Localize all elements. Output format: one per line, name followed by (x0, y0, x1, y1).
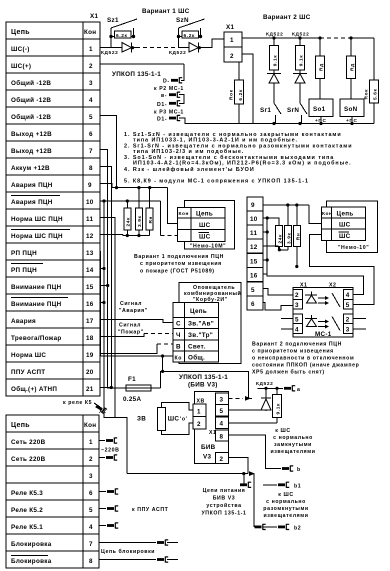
wire pin1 to loop (100, 47, 111, 49)
diode VD3 (261, 388, 271, 411)
svg-text:Rд: Rд (319, 63, 325, 71)
svg-text:Авария: Авария (11, 318, 36, 325)
svg-text:5: 5 (251, 287, 255, 294)
svg-text:ШС: ШС (339, 222, 351, 229)
svg-text:КД522: КД522 (292, 32, 309, 38)
svg-text:ШС(+): ШС(+) (11, 63, 31, 70)
module MC-1 (293, 283, 353, 339)
svg-text:21: 21 (86, 386, 94, 393)
wire pin12 bottom PCN line (100, 234, 150, 237)
branch So1: resistor Rd and detector box (309, 38, 333, 124)
svg-text:Норма ШС ПЦН: Норма ШС ПЦН (11, 233, 63, 240)
svg-text:5. К8,К9 - модули МС-1 сопряже: 5. К8,К9 - модули МС-1 сопряжения с УПКО… (124, 179, 309, 185)
svg-text:Х1: Х1 (226, 24, 234, 31)
svg-text:Зв."Ав": Зв."Ав" (188, 321, 214, 328)
svg-text:Тревога/Пожар: Тревога/Пожар (11, 335, 62, 342)
svg-text:Rн: Rн (295, 233, 301, 241)
svg-text:2: 2 (89, 456, 93, 463)
UPKOP BIV V3 unit (179, 374, 228, 464)
svg-text:к ШС: к ШС (278, 492, 293, 498)
svg-text:ШС: ШС (199, 222, 211, 229)
svg-text:Вариант 2 ШС: Вариант 2 ШС (263, 14, 311, 21)
svg-text:Цепь: Цепь (11, 29, 30, 36)
svg-text:4: 4 (89, 524, 93, 531)
svg-text:Выход +12В: Выход +12В (11, 148, 52, 155)
svg-text:с нормально: с нормально (266, 499, 306, 505)
svg-text:V3: V3 (203, 454, 211, 461)
diode circuit top wire with plug a (257, 385, 300, 393)
svg-text:Ч: Ч (176, 332, 181, 339)
plug b1 branch (240, 474, 301, 490)
svg-text:16: 16 (86, 301, 94, 308)
svg-text:КД522: КД522 (256, 381, 273, 387)
svg-text:Вариант 1 подключения ПЦН: Вариант 1 подключения ПЦН (134, 254, 224, 260)
svg-text:Сеть 220В: Сеть 220В (11, 439, 46, 446)
svg-text:SzN: SzN (176, 17, 189, 24)
svg-text:11: 11 (86, 216, 93, 223)
vertical bus vD pin8 (100, 167, 113, 390)
svg-text:КД522: КД522 (101, 50, 118, 56)
svg-text:8: 8 (89, 558, 93, 565)
vertical bus vC pin7 to fuse with pin15 tap (100, 150, 126, 389)
plug b2 branch (254, 474, 301, 532)
wire BIV pin4 to resistor bottom (228, 422, 277, 424)
svg-text:Сеть 220В: Сеть 220В (11, 456, 46, 463)
svg-text:Кон: Кон (84, 422, 96, 429)
svg-text:с приоритетом извещения: с приоритетом извещения (140, 261, 222, 267)
svg-text:Кон: Кон (322, 211, 333, 217)
svg-text:9.1к: 9.1к (299, 55, 305, 66)
svg-text:1: 1 (230, 37, 234, 44)
svg-text:РП ПЦН: РП ПЦН (11, 250, 37, 257)
svg-text:0.25А: 0.25А (123, 396, 141, 403)
X2 pin6 relay plug (99, 489, 118, 495)
svg-text:5: 5 (89, 507, 93, 514)
svg-text:D1-: D1- (157, 117, 167, 123)
svg-text:ШС(-): ШС(-) (11, 46, 30, 53)
svg-text:с приоритетом извещения: с приоритетом извещения (252, 349, 334, 355)
vertical bus vA pin13 to Ko (100, 252, 173, 358)
svg-text:к Р2 МС-1: к Р2 МС-1 (154, 86, 184, 92)
svg-text:13: 13 (86, 250, 94, 257)
svg-text:b2: b2 (294, 526, 301, 532)
wire pin14 stub (100, 267, 106, 270)
fuse F1 0.25A (123, 376, 160, 403)
svg-text:(БИВ V3): (БИВ V3) (188, 382, 218, 389)
wire cell12 to resistor bottoms (263, 246, 288, 251)
svg-text:2: 2 (220, 456, 224, 463)
notes list (124, 132, 353, 185)
wire pin17 to Korbu C (100, 320, 173, 323)
svg-text:замкнутыми: замкнутыми (274, 442, 312, 448)
svg-text:извещателями: извещателями (263, 513, 308, 519)
svg-text:к ППУ АСПТ: к ППУ АСПТ (132, 507, 169, 513)
svg-text:Реле К5.1: Реле К5.1 (11, 524, 43, 531)
svg-text:Внимание ПЦН: Внимание ПЦН (11, 301, 62, 308)
wire cell16 vertical bus to MC-1 X2 pin4 (263, 218, 364, 295)
svg-text:4: 4 (89, 97, 93, 104)
svg-text:"Корбу-2И": "Корбу-2И" (193, 296, 228, 303)
svg-text:4: 4 (220, 421, 224, 428)
vertical bus vB pin10 return (104, 201, 127, 474)
X2 pin8 blocking wire (99, 557, 178, 563)
svg-text:3.9к: 3.9к (286, 233, 292, 244)
resistor R2 PCN (135, 188, 143, 236)
wire dashed to ShS-bar row of Nemo-10M (160, 235, 177, 237)
diode VD1 KD522 (101, 43, 136, 57)
svg-text:6: 6 (89, 131, 93, 138)
svg-text:Выход +12В: Выход +12В (11, 131, 52, 138)
bottom power bus with arrow (127, 471, 255, 476)
svg-text:12: 12 (250, 244, 258, 251)
right terminal strip 5-6 (247, 282, 263, 310)
svg-text:"Авария": "Авария" (119, 308, 148, 314)
resistor R7 9.1k (273, 388, 282, 423)
svg-text:Реле К5.2: Реле К5.2 (11, 507, 43, 514)
svg-text:Блокировка: Блокировка (11, 558, 52, 565)
svg-text:Цепи питания: Цепи питания (203, 488, 246, 494)
svg-text:F1: F1 (128, 376, 136, 383)
wire BIV pin5 to diode (228, 409, 266, 411)
svg-text:5: 5 (346, 302, 350, 309)
svg-text:устройства: устройства (206, 502, 241, 509)
wire pin19 to Korbu V (100, 344, 173, 353)
svg-text:10: 10 (86, 199, 94, 206)
svg-text:С: С (176, 321, 181, 328)
svg-text:6.2к: 6.2к (116, 33, 127, 39)
wire pin9 jog to top PCN line (100, 184, 167, 188)
svg-text:12: 12 (86, 233, 94, 240)
svg-text:к Р3 МС-1: к Р3 МС-1 (154, 110, 184, 116)
resistor R3 PCN (146, 188, 154, 236)
svg-text:b: b (297, 467, 301, 473)
detector Sz1 (107, 17, 137, 48)
right terminal strip 15-16 (247, 254, 263, 282)
svg-text:о неисправности в отключенном: о неисправности в отключенном (252, 356, 354, 362)
svg-text:Общ.(+) АТНП: Общ.(+) АТНП (11, 385, 57, 393)
svg-text:Rн: Rн (148, 216, 154, 224)
svg-text:в-: в- (161, 93, 167, 99)
right terminal strip 9-12 (247, 197, 263, 253)
optocoupler 1 inside MC-1 (305, 292, 340, 308)
svg-text:Сигнал: Сигнал (119, 323, 141, 329)
svg-text:к ШС: к ШС (275, 428, 290, 434)
wire pin5 down to PCN resistor bus (100, 116, 117, 188)
svg-text:8: 8 (89, 165, 93, 172)
svg-text:11: 11 (250, 230, 257, 237)
wire cell15 to vertical (263, 258, 269, 261)
svg-text:1: 1 (89, 46, 93, 53)
svg-text:Реле К5.3: Реле К5.3 (11, 490, 43, 497)
svg-text:Свет.: Свет. (188, 344, 206, 351)
svg-text:Норма ШС ПЦН: Норма ШС ПЦН (11, 216, 63, 223)
svg-text:3: 3 (295, 302, 299, 309)
svg-text:6: 6 (89, 490, 93, 497)
wire BIV pin2 to bottom bus (228, 458, 248, 474)
svg-text:3: 3 (220, 397, 224, 404)
svg-text:Sг1: Sг1 (260, 107, 271, 114)
svg-text:Вариант 2 подключения ПЦН: Вариант 2 подключения ПЦН (252, 342, 342, 348)
svg-text:Общий -12В: Общий -12В (11, 79, 51, 87)
svg-text:6.2к: 6.2к (184, 33, 195, 39)
UPKOP label block with D outputs (100, 64, 253, 124)
connector X1 plug 2pin (224, 24, 242, 62)
svg-text:1: 1 (197, 409, 201, 416)
vertical bus vE pin11 (100, 218, 115, 418)
PCN device Nemo-10M box (178, 200, 235, 249)
wire loop to connector X1 (206, 39, 224, 48)
svg-text:Rок: Rок (364, 89, 370, 100)
svg-text:15: 15 (250, 259, 258, 266)
wire to ShS row of Nemo-10M (167, 188, 177, 224)
connector X1 terminal table (6, 13, 100, 396)
wire cell11 to vertical (263, 230, 269, 233)
top bus variant 2 (272, 36, 374, 39)
svg-text:5: 5 (295, 317, 299, 324)
svg-text:~220В: ~220В (101, 448, 119, 454)
X2 pin7 blocking wire (99, 540, 178, 546)
svg-text:УПКОП 135-1-1: УПКОП 135-1-1 (201, 511, 246, 517)
svg-text:2: 2 (197, 421, 201, 428)
connector X2 terminal table (6, 415, 99, 568)
resistor ShS-o with leads (158, 403, 194, 435)
svg-text:Ко: Ко (175, 356, 183, 362)
svg-text:ППУ АСПТ: ППУ АСПТ (11, 369, 45, 376)
annunciator Korbu box (173, 283, 242, 364)
wire BIV pin8 to plug b (228, 435, 300, 473)
optocoupler 2 inside MC-1 (305, 315, 340, 331)
svg-text:Sz1: Sz1 (107, 17, 119, 24)
svg-text:В: В (176, 344, 181, 351)
svg-text:3: 3 (89, 80, 93, 87)
wire dashed loop segment (136, 47, 179, 49)
resistor Rok variant1 (229, 62, 245, 124)
svg-text:4: 4 (295, 327, 299, 334)
svg-text:14: 14 (86, 267, 94, 274)
stub MC-1 X2 pin3 (353, 328, 366, 330)
svg-text:17: 17 (86, 318, 94, 325)
svg-text:комбинированный: комбинированный (184, 290, 241, 297)
svg-text:с нормально: с нормально (273, 435, 313, 441)
svg-text:24к: 24к (277, 234, 283, 244)
svg-text:1: 1 (89, 439, 93, 446)
svg-text:7: 7 (89, 541, 93, 548)
svg-text:2: 2 (346, 317, 350, 324)
power wire from Ko and fuse to diode circuit (160, 356, 248, 398)
svg-text:D1-: D1- (157, 102, 167, 108)
svg-text:Внимание ПЦН: Внимание ПЦН (11, 284, 62, 291)
svg-text:Кон: Кон (84, 29, 96, 36)
svg-text:Цепь: Цепь (337, 211, 354, 218)
svg-text:Авария ПЦН: Авария ПЦН (11, 182, 53, 189)
stub MC-1 X1 pin4 (281, 328, 293, 330)
svg-text:ШС: ШС (199, 234, 211, 241)
svg-text:Кон: Кон (179, 211, 190, 217)
svg-text:УПКОП 135-1-1: УПКОП 135-1-1 (112, 71, 161, 78)
svg-text:БИВ: БИВ (201, 444, 216, 451)
svg-text:"Немо-10": "Немо-10" (338, 245, 369, 251)
bottom bus variant 2 (253, 122, 374, 125)
svg-text:Rок: Rок (229, 89, 235, 100)
svg-text:типа ИП1033-1, ИП103-3-А2-1И и: типа ИП1033-1, ИП103-3-А2-1И и им подобн… (133, 137, 298, 144)
svg-text:15: 15 (86, 284, 94, 291)
resistor R1 PCN (124, 201, 132, 236)
branch Sg1: resistor 9.1k, diode, switch (260, 38, 281, 124)
X2 pin1 plug 220V (99, 438, 117, 444)
wire strip cell6 to MC-1 X1 pin3 (263, 303, 293, 311)
svg-text:Цепь: Цепь (196, 211, 213, 218)
detector SzN (176, 17, 205, 48)
svg-text:8: 8 (220, 433, 224, 440)
svg-text:Rд: Rд (350, 63, 356, 71)
svg-text:9.1к: 9.1к (276, 403, 282, 414)
svg-text:10: 10 (250, 216, 258, 223)
svg-text:2: 2 (89, 63, 93, 70)
text to ShS normally closed (270, 428, 315, 455)
X2 pin5 relay plug (99, 506, 118, 512)
wire pin16 stub (100, 301, 106, 304)
svg-text:24к: 24к (126, 217, 132, 227)
svg-text:'о': 'о' (180, 417, 187, 423)
svg-text:"Немо-10М": "Немо-10М" (190, 244, 226, 250)
svg-text:b1: b1 (294, 484, 301, 490)
svg-text:МС-1: МС-1 (315, 331, 332, 338)
svg-text:19: 19 (86, 352, 94, 359)
svg-text:3: 3 (346, 327, 350, 334)
svg-text:20: 20 (86, 369, 94, 376)
svg-text:ЗВ: ЗВ (137, 416, 146, 423)
signal label Pozhar (118, 323, 144, 336)
wire ShS-bar row to MC-1 X2 pin5 (310, 235, 374, 305)
text variant 1 PCN note (134, 254, 224, 275)
svg-text:6: 6 (251, 301, 255, 308)
svg-text:КД522: КД522 (169, 50, 186, 56)
svg-text:о пожаре (ГОСТ Р51089): о пожаре (ГОСТ Р51089) (140, 269, 215, 275)
svg-text:РП ПЦН: РП ПЦН (11, 267, 37, 274)
branch SoN: resistor Rd and detector box (340, 38, 364, 124)
svg-text:УПКОП 135-1-1: УПКОП 135-1-1 (179, 374, 228, 381)
svg-text:ИП103-4-А2-1(Rо=4.3кОм), ИП212: ИП103-4-А2-1(Rо=4.3кОм), ИП212-Р6(Rо=3.3… (133, 160, 352, 167)
text to ShS normally open (263, 492, 308, 519)
svg-text:БИВ V3: БИВ V3 (213, 496, 236, 502)
svg-text:Сигнал: Сигнал (120, 301, 142, 307)
svg-text:состоянии ППКОП (иначе джампер: состоянии ППКОП (иначе джампер (252, 363, 359, 369)
wire X1 pin2 down to bottom bus (242, 54, 253, 124)
svg-text:SoN: SoN (344, 106, 358, 113)
svg-text:9: 9 (251, 202, 255, 209)
svg-text:2: 2 (230, 53, 234, 60)
text power circuits BIV (201, 488, 246, 517)
svg-text:Общий -12В: Общий -12В (11, 96, 51, 104)
svg-text:SгN: SгN (287, 107, 299, 114)
svg-text:Х2: Х2 (99, 409, 107, 415)
diode VD2 KD522 (169, 43, 206, 57)
resistor R5 PCN2 (285, 205, 293, 250)
branch SgN: resistor 9.1k, diode, switch (287, 38, 307, 124)
svg-text:Блокировка: Блокировка (11, 541, 52, 548)
svg-text:9: 9 (88, 182, 92, 189)
svg-text:So1: So1 (313, 106, 326, 113)
svg-text:Цепь блокировки: Цепь блокировки (101, 548, 155, 555)
svg-text:5: 5 (89, 114, 93, 121)
svg-text:2: 2 (295, 292, 299, 299)
svg-text:типа ИП103-2/3 и им подобные.: типа ИП103-2/3 и им подобные. (133, 148, 244, 155)
svg-text:9.1к: 9.1к (273, 55, 279, 66)
svg-text:6.2к: 6.2к (238, 89, 244, 100)
svg-text:Общ.: Общ. (188, 354, 205, 362)
text variant 2 PCN note (252, 342, 359, 376)
svg-text:Авария ПЦН: Авария ПЦН (11, 199, 53, 206)
svg-text:Цепь: Цепь (190, 308, 207, 315)
svg-text:разомкнутыми: разомкнутыми (263, 506, 308, 512)
svg-text:КД522: КД522 (266, 32, 283, 38)
label k rele K5 and X2 (63, 400, 107, 415)
svg-text:"Пожар": "Пожар" (118, 330, 144, 336)
svg-text:D-: D- (163, 79, 170, 85)
svg-text:7: 7 (89, 148, 93, 155)
stub MC-1 X2 pin2 (353, 318, 366, 320)
resistor Rok variant2 5.6k (364, 38, 379, 124)
svg-text:4. Rзк - шлейфовый элемент'ы Б: 4. Rзк - шлейфовый элемент'ы БУОИ (124, 166, 255, 173)
resistor R6 PCN2 (294, 205, 302, 267)
resistor R4 PCN2 (276, 226, 284, 250)
svg-text:3: 3 (89, 473, 93, 480)
svg-text:Х1: Х1 (90, 13, 98, 20)
svg-text:Зв."Тр": Зв."Тр" (188, 332, 213, 339)
svg-text:5: 5 (220, 408, 224, 415)
wire cell9 to ShS row right Nemo-10 (263, 203, 321, 223)
svg-text:Аккум +12В: Аккум +12В (11, 165, 50, 172)
X2 pin4 relay plug (99, 523, 118, 529)
wire strip cell5 to MC-1 X1 pin2 (263, 289, 293, 296)
wire X1 pin1 to top bus (242, 37, 320, 39)
svg-text:18: 18 (86, 335, 94, 342)
signal label Avariya (119, 301, 148, 314)
wire BIV pin3 dashed with arrow (228, 396, 252, 401)
svg-text:извещателями: извещателями (270, 449, 315, 455)
svg-text:Норма ШС: Норма ШС (11, 352, 46, 359)
svg-text:а: а (297, 387, 301, 393)
wire cell10 junction and R4 top (263, 216, 279, 225)
stub MC-1 X1 pin5 (281, 318, 293, 320)
X2 pin2 plug 220V (99, 455, 117, 461)
svg-text:ШС: ШС (339, 233, 351, 240)
svg-text:Цепь: Цепь (11, 422, 30, 429)
PCN device Nemo-10 box right (321, 201, 377, 253)
svg-text:ХР5 должен быть снят): ХР5 должен быть снят) (252, 369, 325, 376)
wire pin18 to Korbu Ch (100, 334, 173, 337)
svg-text:Общий -12В: Общий -12В (11, 113, 51, 121)
svg-text:16: 16 (250, 273, 258, 280)
svg-text:3.9к: 3.9к (137, 216, 143, 227)
wire pin10 to R1 top and ShS-bar (100, 199, 160, 235)
svg-text:к реле К5: к реле К5 (63, 400, 92, 406)
svg-text:Вариант 1 ШС: Вариант 1 ШС (142, 8, 190, 15)
svg-text:5.6к: 5.6к (373, 89, 379, 100)
svg-text:ШС: ШС (168, 416, 180, 423)
svg-text:4: 4 (346, 292, 350, 299)
